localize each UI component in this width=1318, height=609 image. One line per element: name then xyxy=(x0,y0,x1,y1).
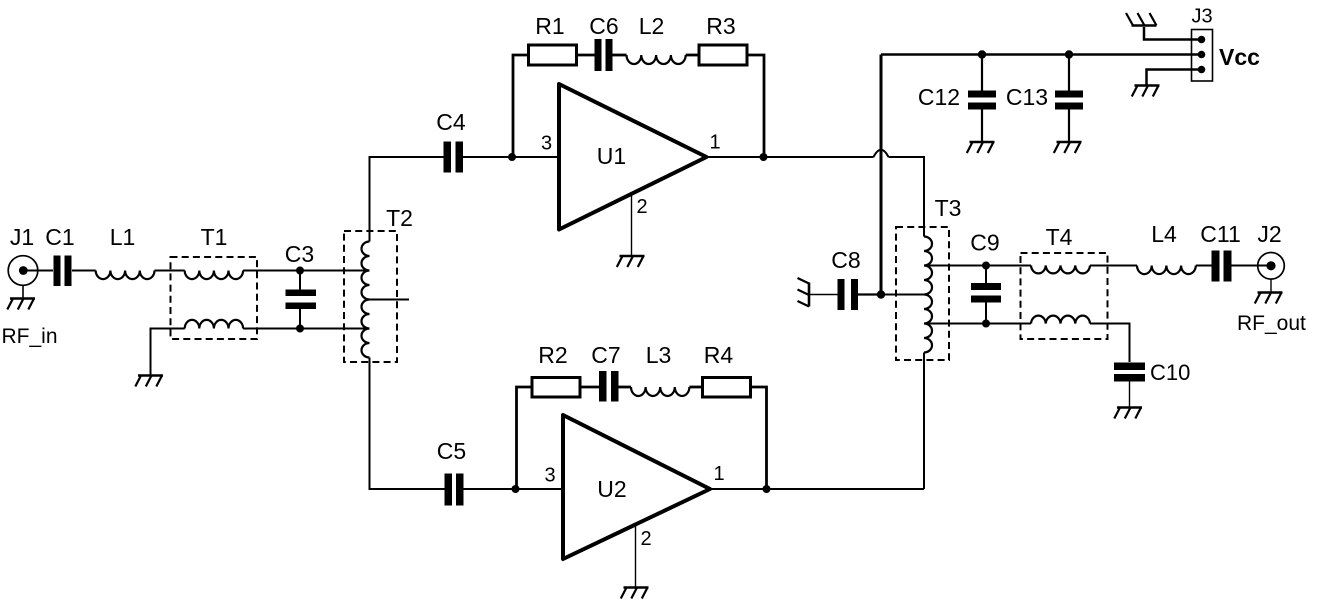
svg-text:C3: C3 xyxy=(285,241,314,267)
wire Vcc rail xyxy=(881,53,1201,56)
wire xyxy=(463,156,559,158)
wire xyxy=(370,299,410,301)
svg-text:J3: J3 xyxy=(1191,6,1212,28)
capacitor C8 xyxy=(838,279,859,310)
wire xyxy=(1068,55,1070,142)
svg-text:C7: C7 xyxy=(591,342,620,368)
wire xyxy=(889,157,925,237)
svg-text:U1: U1 xyxy=(597,143,626,169)
capacitor C6 xyxy=(595,39,613,71)
resistor R3 xyxy=(699,45,747,65)
wire xyxy=(924,265,1031,267)
node xyxy=(978,50,986,58)
wire xyxy=(923,353,925,490)
wire xyxy=(517,387,533,489)
wire xyxy=(1147,70,1202,86)
capacitor C12 xyxy=(968,91,996,110)
transformer T1 xyxy=(171,257,258,339)
connector J2 xyxy=(1258,252,1285,279)
svg-text:3: 3 xyxy=(544,465,555,487)
wire xyxy=(513,55,529,157)
ground xyxy=(1126,13,1157,26)
svg-text:L4: L4 xyxy=(1151,221,1177,247)
wire xyxy=(631,194,633,255)
inductor L3 xyxy=(631,387,689,396)
wire xyxy=(1144,27,1202,40)
wire xyxy=(747,55,764,157)
wire xyxy=(613,54,627,57)
wire xyxy=(580,386,599,389)
svg-text:J1: J1 xyxy=(10,224,34,250)
node xyxy=(763,485,771,493)
wire xyxy=(370,157,444,242)
svg-text:T3: T3 xyxy=(935,195,962,221)
svg-text:2: 2 xyxy=(636,196,647,218)
wire xyxy=(299,271,301,329)
ground xyxy=(1132,86,1160,97)
svg-text:RF_in: RF_in xyxy=(2,325,58,348)
svg-text:C6: C6 xyxy=(589,13,618,39)
transformer T4 xyxy=(1021,253,1108,339)
svg-text:R2: R2 xyxy=(538,342,567,368)
connector J1 xyxy=(8,256,38,286)
wire xyxy=(23,270,53,272)
wire xyxy=(751,387,767,489)
ground xyxy=(135,376,163,387)
wire xyxy=(1090,324,1130,363)
resistor R2 xyxy=(532,378,580,398)
ground xyxy=(1255,293,1283,304)
node xyxy=(512,485,520,493)
pin dots J3 xyxy=(1198,36,1206,74)
capacitor C9 xyxy=(971,283,1001,303)
svg-text:T4: T4 xyxy=(1046,224,1073,250)
wire xyxy=(1270,279,1272,292)
wire Vcc feed xyxy=(880,55,883,295)
node xyxy=(296,267,304,275)
wire xyxy=(985,266,987,324)
wire xyxy=(810,294,838,296)
svg-text:J2: J2 xyxy=(1257,221,1281,247)
wire xyxy=(635,525,637,587)
resistor R4 xyxy=(703,378,751,398)
wire xyxy=(370,358,445,490)
op-amp U1 xyxy=(559,84,707,230)
svg-text:C12: C12 xyxy=(918,84,960,110)
wire xyxy=(924,323,1031,325)
wire xyxy=(72,270,96,272)
svg-text:L3: L3 xyxy=(646,342,672,368)
svg-text:C10: C10 xyxy=(1150,360,1190,385)
ground xyxy=(7,299,35,310)
svg-text:R3: R3 xyxy=(706,13,735,39)
wire xyxy=(1232,265,1272,267)
svg-text:T1: T1 xyxy=(201,224,228,250)
node xyxy=(982,320,990,328)
resistor R1 xyxy=(529,45,577,65)
wire jump xyxy=(874,150,889,157)
svg-text:C9: C9 xyxy=(970,230,999,256)
capacitor C11 xyxy=(1212,251,1232,282)
svg-text:R1: R1 xyxy=(535,13,564,39)
node xyxy=(982,262,990,270)
wire xyxy=(619,386,632,389)
svg-text:1: 1 xyxy=(713,463,724,485)
svg-text:U2: U2 xyxy=(597,476,626,502)
inductor L4 xyxy=(1137,266,1196,275)
transformer T3 xyxy=(896,227,949,360)
capacitor C13 xyxy=(1055,91,1083,110)
ground xyxy=(1114,408,1142,419)
capacitor C5 xyxy=(445,474,464,506)
capacitor C4 xyxy=(444,142,464,173)
svg-text:T2: T2 xyxy=(386,205,413,231)
svg-text:2: 2 xyxy=(640,528,651,550)
wire xyxy=(858,293,881,295)
node xyxy=(508,153,516,161)
wire xyxy=(1196,265,1212,267)
svg-text:Vcc: Vcc xyxy=(1219,44,1260,70)
wire xyxy=(881,294,924,296)
wire xyxy=(707,156,874,158)
ground xyxy=(1054,142,1082,153)
node xyxy=(1065,50,1073,58)
capacitor C10 xyxy=(1114,363,1145,382)
wire xyxy=(981,55,983,142)
svg-text:C8: C8 xyxy=(831,247,860,273)
capacitor C3 xyxy=(286,290,317,310)
svg-text:C13: C13 xyxy=(1006,84,1048,110)
svg-text:1: 1 xyxy=(709,132,720,154)
transformer T2 xyxy=(344,231,397,362)
ground xyxy=(798,278,810,307)
op-amp U2 xyxy=(563,415,710,559)
wire xyxy=(151,329,185,376)
svg-text:C1: C1 xyxy=(45,224,74,250)
svg-text:C11: C11 xyxy=(1200,221,1241,247)
wire xyxy=(243,270,369,272)
wire xyxy=(1129,382,1131,408)
wire xyxy=(689,386,702,389)
svg-text:L1: L1 xyxy=(110,224,136,250)
wire xyxy=(464,488,564,490)
svg-text:C4: C4 xyxy=(436,109,466,135)
svg-text:R4: R4 xyxy=(704,342,734,368)
wire xyxy=(22,285,24,298)
node xyxy=(760,153,768,161)
ground xyxy=(617,256,645,267)
capacitor C1 xyxy=(54,256,72,287)
ground xyxy=(621,588,649,599)
node xyxy=(877,290,885,298)
wire xyxy=(243,328,369,330)
wire xyxy=(710,488,924,490)
capacitor C7 xyxy=(599,371,619,402)
svg-text:L2: L2 xyxy=(639,13,665,39)
svg-text:RF_out: RF_out xyxy=(1237,312,1306,335)
ground xyxy=(967,142,995,153)
svg-text:C5: C5 xyxy=(437,438,466,464)
wire xyxy=(577,54,595,57)
inductor L2 xyxy=(627,55,686,64)
wire xyxy=(686,54,699,57)
connector J3 xyxy=(1192,30,1213,82)
wire xyxy=(1090,265,1137,267)
inductor L1 xyxy=(96,271,155,280)
wire xyxy=(155,270,185,272)
node xyxy=(296,325,304,333)
svg-text:3: 3 xyxy=(541,133,552,155)
